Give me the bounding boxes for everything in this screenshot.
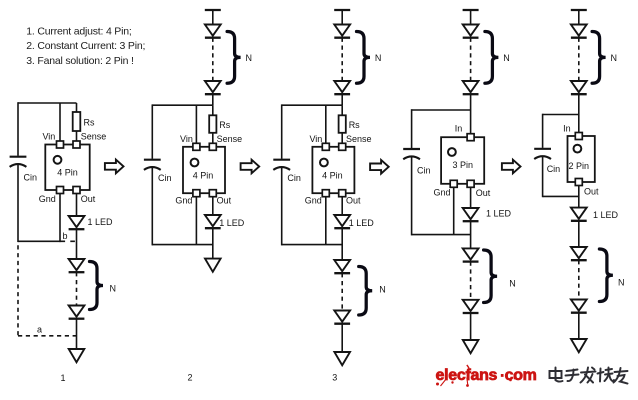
label Gnd (circuit 3) bbox=[305, 196, 322, 206]
svg-text:Gnd: Gnd bbox=[175, 196, 192, 206]
wire Out lead (circuit 3) bbox=[341, 197, 343, 215]
svg-text:Sense: Sense bbox=[81, 132, 107, 142]
wire top rail (circuit 1) bbox=[18, 102, 77, 104]
wire left rail (circuit 1) bbox=[17, 102, 19, 156]
wire left rail upper (circuit 4) bbox=[411, 109, 413, 148]
wire top chain lead (circuit 2) bbox=[212, 10, 214, 25]
label N lower (circuit 3) bbox=[379, 285, 386, 295]
op-amp U5 2-Pin regulator body bbox=[568, 136, 595, 182]
diode chain top D1 (circuit 2) bbox=[205, 25, 221, 38]
wire top chain bar (circuit 5) bbox=[571, 9, 587, 11]
ground (circuit 2) bbox=[205, 259, 221, 272]
logo Chinese char 烧 bbox=[598, 368, 615, 382]
op-amp U4 3-Pin regulator body bbox=[441, 137, 484, 184]
svg-text:Out: Out bbox=[217, 196, 232, 206]
pin-1 dot (circuit 2) bbox=[191, 159, 199, 167]
wire top chain bar (circuit 3) bbox=[334, 9, 350, 11]
brace N top (circuit 2) bbox=[227, 32, 241, 84]
label 4 Pin (circuit 2) bbox=[193, 171, 214, 181]
svg-text:Sense: Sense bbox=[346, 134, 372, 144]
wire Vin stub (circuit 3) bbox=[325, 105, 327, 144]
resistor Rs R1 bbox=[73, 112, 81, 131]
label 1 LED (circuit 3) bbox=[349, 218, 375, 228]
label Gnd (circuit 4) bbox=[433, 188, 450, 198]
wire left rail lower (circuit 4) bbox=[411, 157, 413, 236]
logo elecfans.com text bbox=[436, 367, 537, 384]
svg-text:N: N bbox=[503, 53, 510, 63]
label In (circuit 5) bbox=[563, 123, 571, 133]
wire chain to ground (circuit 4) bbox=[470, 313, 472, 340]
label N top (circuit 4) bbox=[503, 53, 510, 63]
svg-text:Cin: Cin bbox=[24, 173, 38, 183]
brace N lower (circuit 3) bbox=[359, 267, 373, 316]
pin Out (circuit 5) bbox=[575, 179, 582, 186]
label Cin (circuit 3) bbox=[287, 173, 301, 183]
label Rs (circuit 1) bbox=[84, 118, 95, 128]
label Vin (circuit 3) bbox=[309, 134, 322, 144]
pin Out (circuit 3) bbox=[339, 190, 346, 197]
pin-1 dot (circuit 5) bbox=[574, 145, 582, 153]
brace N lower (circuit 5) bbox=[599, 249, 613, 302]
wire dashed top chain (circuit 5) bbox=[578, 38, 580, 81]
label 4 Pin (circuit 3) bbox=[322, 171, 343, 181]
svg-text:Gnd: Gnd bbox=[305, 196, 322, 206]
ground (circuit 5) bbox=[571, 339, 587, 352]
label Cin (circuit 5) bbox=[547, 164, 561, 174]
wire Out lead (circuit 4) bbox=[470, 187, 472, 208]
logo Chinese char 子 bbox=[566, 370, 579, 382]
diode D2 (circuit 1 chain) bbox=[69, 259, 85, 272]
brace N (circuit 1) bbox=[90, 262, 104, 310]
label Gnd (circuit 1) bbox=[39, 194, 56, 204]
pin Gnd (circuit 2) bbox=[193, 190, 200, 197]
title line 2 bbox=[26, 40, 145, 52]
wire bottom rail (circuit 4) bbox=[412, 234, 471, 236]
label N lower (circuit 5) bbox=[618, 278, 625, 288]
svg-text:Cin: Cin bbox=[158, 173, 172, 183]
wire Gnd lead (circuit 2) bbox=[195, 197, 197, 245]
pin Sense (circuit 2) bbox=[209, 143, 216, 150]
arrow 4 bbox=[502, 160, 521, 174]
svg-text:com: com bbox=[505, 367, 537, 384]
svg-text:Sense: Sense bbox=[217, 134, 243, 144]
diode chain top D2 (circuit 3) bbox=[334, 81, 350, 94]
brace N top (circuit 5) bbox=[592, 32, 606, 84]
svg-text:b: b bbox=[63, 231, 68, 241]
svg-text:Out: Out bbox=[346, 196, 361, 206]
wire node b dashed link (circuit 1) bbox=[61, 240, 77, 242]
label 2 (circuit number) bbox=[187, 373, 192, 383]
capacitor Cin (circuit 5) bbox=[534, 149, 551, 159]
resistor Rs (circuit 3) bbox=[339, 115, 346, 133]
svg-text:1 LED: 1 LED bbox=[593, 210, 619, 220]
svg-text:3 Pin: 3 Pin bbox=[452, 160, 473, 170]
diode chain top D2 (circuit 4) bbox=[463, 81, 479, 94]
label Out (circuit 3) bbox=[346, 196, 361, 206]
wire LED to ground (circuit 2) bbox=[212, 228, 214, 258]
svg-text:Cin: Cin bbox=[417, 166, 431, 176]
label Cin (circuit 1) bbox=[24, 173, 38, 183]
diode chain lower D2 (circuit 5) bbox=[571, 247, 587, 260]
arrow 2 bbox=[241, 160, 260, 174]
svg-text:1 LED: 1 LED bbox=[349, 218, 375, 228]
wire chain to ground (circuit 3) bbox=[341, 324, 343, 352]
svg-text:N: N bbox=[110, 284, 117, 294]
wire dashed top chain (circuit 3) bbox=[341, 38, 343, 81]
label N top (circuit 5) bbox=[611, 53, 618, 63]
label Out (circuit 5) bbox=[584, 187, 599, 197]
wire top rail (circuit 2) bbox=[152, 104, 213, 106]
svg-text:Vin: Vin bbox=[180, 134, 193, 144]
wire dashed left drop (circuit 1) bbox=[17, 245, 19, 335]
svg-text:Vin: Vin bbox=[42, 132, 55, 142]
wire Out lead (circuit 2) bbox=[212, 197, 214, 215]
wire top rail (circuit 4) bbox=[412, 109, 471, 111]
label Out (circuit 2) bbox=[217, 196, 232, 206]
wire Gnd lead (circuit 3) bbox=[325, 197, 327, 245]
wire top chain lead (circuit 5) bbox=[578, 10, 580, 25]
wire top rail (circuit 5) bbox=[543, 114, 579, 116]
diode chain top D1 (circuit 5) bbox=[571, 25, 587, 38]
pin Sense (U1) bbox=[73, 141, 80, 148]
wire bottom rail (circuit 3) bbox=[282, 244, 343, 246]
ground (circuit 4) bbox=[463, 340, 479, 353]
label Gnd (circuit 2) bbox=[175, 196, 192, 206]
wire dashed node a link (circuit 1) bbox=[18, 335, 77, 337]
svg-text:Out: Out bbox=[81, 194, 96, 204]
wire Rs bottom lead (circuit 1) bbox=[76, 131, 78, 142]
resistor Rs (circuit 2) bbox=[209, 115, 216, 133]
wire chain to ground (circuit 1) bbox=[76, 319, 78, 349]
label Cin (circuit 4) bbox=[417, 166, 431, 176]
diode chain top D2 (circuit 5) bbox=[571, 81, 587, 94]
wire top chain bar (circuit 2) bbox=[205, 9, 221, 11]
svg-text:Rs: Rs bbox=[219, 120, 230, 130]
label 2 Pin (circuit 5) bbox=[569, 161, 590, 171]
pin Out (circuit 4) bbox=[467, 180, 474, 187]
label Vin (circuit 1) bbox=[42, 132, 55, 142]
wire dashed chain (circuit 1) bbox=[76, 272, 78, 305]
diode chain lower D3 (circuit 3) bbox=[334, 311, 350, 324]
label 1 LED (circuit 5) bbox=[593, 210, 619, 220]
diode chain lower D2 (circuit 3) bbox=[334, 260, 350, 273]
wire dashed lower chain (circuit 3) bbox=[341, 273, 343, 310]
title line 3 bbox=[26, 55, 133, 67]
svg-text:1 LED: 1 LED bbox=[486, 209, 512, 219]
wire top chain bar (circuit 4) bbox=[463, 9, 479, 11]
svg-text:Rs: Rs bbox=[349, 120, 360, 130]
pin Vin (U1) bbox=[57, 141, 64, 148]
svg-text:Gnd: Gnd bbox=[433, 188, 450, 198]
wire left rail lower (circuit 2) bbox=[151, 167, 153, 245]
wire dashed lower chain (circuit 5) bbox=[578, 260, 580, 299]
diode chain lower D3 (circuit 5) bbox=[571, 300, 587, 313]
svg-text:3: 3 bbox=[332, 373, 337, 383]
diode D3 (circuit 1 chain) bbox=[69, 306, 85, 319]
label Out (circuit 4) bbox=[476, 188, 491, 198]
svg-text:N: N bbox=[509, 279, 516, 289]
pin Out (U1) bbox=[73, 187, 80, 194]
svg-text:a: a bbox=[37, 325, 42, 335]
pin Vin (circuit 3) bbox=[322, 143, 329, 150]
ground (circuit 3) bbox=[334, 352, 350, 365]
wire top chain to In pin (circuit 5) bbox=[578, 94, 580, 132]
svg-text:Vin: Vin bbox=[309, 134, 322, 144]
wire Out lead (circuit 1) bbox=[76, 194, 78, 217]
logo Chinese char 友 bbox=[614, 368, 628, 384]
label 3 (circuit number) bbox=[332, 373, 337, 383]
capacitor Cin (circuit 2) bbox=[144, 160, 161, 170]
op-amp U2 4-Pin regulator body bbox=[183, 147, 225, 193]
brace N lower (circuit 4) bbox=[484, 250, 498, 303]
label 1 LED (circuit 4) bbox=[486, 209, 512, 219]
wire Gnd lead (circuit 4) bbox=[453, 187, 455, 234]
svg-text:Out: Out bbox=[584, 187, 599, 197]
brace N top (circuit 4) bbox=[485, 32, 499, 84]
pin-1 dot (circuit 4) bbox=[448, 148, 456, 156]
wire LED to junction (circuit 4) bbox=[470, 221, 472, 248]
svg-text:1: 1 bbox=[60, 373, 65, 383]
diode 1 LED (circuit 4) bbox=[463, 208, 479, 221]
svg-text:In: In bbox=[455, 124, 463, 134]
wire dashed lower chain (circuit 4) bbox=[470, 262, 472, 300]
diode chain top D2 (circuit 2) bbox=[205, 81, 221, 94]
wire Rs top lead (circuit 2) bbox=[212, 105, 214, 115]
diode 1 LED (circuit 3) bbox=[334, 215, 350, 228]
wire dashed top chain (circuit 4) bbox=[470, 38, 472, 81]
diode D1 1 LED (circuit 1) bbox=[69, 216, 85, 229]
wire LED to next (circuit 5) bbox=[578, 221, 580, 247]
diode 1 LED (circuit 5) bbox=[571, 208, 587, 221]
svg-text:2. Constant Current: 3 Pin;: 2. Constant Current: 3 Pin; bbox=[26, 40, 145, 52]
diode chain top D1 (circuit 4) bbox=[463, 25, 479, 38]
wire top chain lead (circuit 3) bbox=[341, 10, 343, 25]
label N top (circuit 3) bbox=[375, 53, 382, 63]
pin In (circuit 4) bbox=[467, 134, 474, 141]
wire bottom rail (circuit 5) bbox=[543, 195, 579, 197]
label N top (circuit 2) bbox=[246, 53, 253, 63]
pin Gnd (circuit 3) bbox=[322, 190, 329, 197]
svg-text:2 Pin: 2 Pin bbox=[569, 161, 590, 171]
pin Vin (circuit 2) bbox=[193, 143, 200, 150]
label Cin (circuit 2) bbox=[158, 173, 172, 183]
wire Rs top lead (circuit 1) bbox=[76, 103, 78, 112]
pin Gnd (U1) bbox=[57, 187, 64, 194]
svg-text:N: N bbox=[246, 53, 253, 63]
svg-text:4 Pin: 4 Pin bbox=[322, 171, 343, 181]
logo Chinese char 电 bbox=[550, 368, 563, 382]
wire left rail upper (circuit 5) bbox=[542, 114, 544, 148]
wire Out lead (circuit 5) bbox=[578, 186, 580, 208]
op-amp U1 4-Pin regulator body bbox=[45, 145, 89, 191]
wire LED to junction (circuit 3) bbox=[341, 228, 343, 260]
node b label bbox=[63, 231, 68, 241]
wire top chain to In pin (circuit 4) bbox=[470, 94, 472, 134]
label Sense (circuit 1) bbox=[81, 132, 107, 142]
svg-text:N: N bbox=[611, 53, 618, 63]
wire Rs bottom lead (circuit 2) bbox=[212, 133, 214, 144]
label 4 Pin (U1) bbox=[57, 168, 78, 178]
wire Vin stub (circuit 2) bbox=[195, 105, 197, 144]
label 1 (circuit number) bbox=[60, 373, 65, 383]
wire top chain to rail (circuit 3) bbox=[341, 94, 343, 105]
label 3 Pin (circuit 4) bbox=[452, 160, 473, 170]
svg-text:N: N bbox=[379, 285, 386, 295]
wire left rail lower (circuit 3) bbox=[281, 167, 283, 245]
label N lower (circuit 4) bbox=[509, 279, 516, 289]
label N (circuit 1) bbox=[110, 284, 117, 294]
label Rs (circuit 3) bbox=[349, 120, 360, 130]
wire Rs bottom lead (circuit 3) bbox=[341, 133, 343, 144]
diode chain top D1 (circuit 3) bbox=[334, 25, 350, 38]
wire bottom rail (circuit 2) bbox=[152, 244, 213, 246]
wire dashed top chain (circuit 2) bbox=[212, 38, 214, 81]
arrow 3 bbox=[370, 160, 389, 174]
wire left rail upper (circuit 3) bbox=[281, 104, 283, 158]
wire cap C1 bottom lead bbox=[17, 164, 19, 242]
label 1 LED (circuit 2) bbox=[219, 218, 245, 228]
svg-text:1. Current adjust: 4 Pin;: 1. Current adjust: 4 Pin; bbox=[26, 26, 131, 38]
capacitor Cin C1 bbox=[10, 157, 27, 167]
diode chain lower D2 (circuit 4) bbox=[463, 248, 479, 261]
svg-text:N: N bbox=[618, 278, 625, 288]
svg-text:1 LED: 1 LED bbox=[219, 218, 245, 228]
arrow 1 bbox=[105, 160, 124, 174]
pin Sense (circuit 3) bbox=[339, 143, 346, 150]
wire top rail (circuit 3) bbox=[282, 104, 343, 106]
svg-text:Cin: Cin bbox=[547, 164, 561, 174]
diode chain lower D3 (circuit 4) bbox=[463, 300, 479, 313]
wire top chain lead (circuit 4) bbox=[470, 10, 472, 25]
wire Vin stub (circuit 1) bbox=[59, 103, 61, 142]
svg-text:4 Pin: 4 Pin bbox=[193, 171, 214, 181]
wire Rs top lead (circuit 3) bbox=[341, 105, 343, 115]
svg-text:Out: Out bbox=[476, 188, 491, 198]
wire chain to ground (circuit 5) bbox=[578, 313, 580, 339]
svg-text:2: 2 bbox=[187, 373, 192, 383]
svg-text:Gnd: Gnd bbox=[39, 194, 56, 204]
svg-text:4 Pin: 4 Pin bbox=[57, 168, 78, 178]
svg-text:3. Fanal solution: 2 Pin !: 3. Fanal solution: 2 Pin ! bbox=[26, 55, 133, 67]
wire bottom rail (circuit 1) bbox=[18, 240, 61, 242]
title line 1 bbox=[26, 26, 131, 38]
label Vin (circuit 2) bbox=[180, 134, 193, 144]
wire left rail lower (circuit 5) bbox=[542, 157, 544, 198]
diode 1 LED (circuit 2) bbox=[205, 215, 221, 228]
label 1 LED (circuit 1) bbox=[88, 217, 114, 227]
op-amp U3 4-Pin regulator body bbox=[312, 147, 354, 193]
wire Gnd lead (circuit 1) bbox=[59, 194, 61, 243]
svg-text:In: In bbox=[563, 123, 571, 133]
brace N top (circuit 3) bbox=[357, 32, 371, 84]
label In (circuit 4) bbox=[455, 124, 463, 134]
label Out (circuit 1) bbox=[81, 194, 96, 204]
pin Gnd (circuit 4) bbox=[450, 180, 457, 187]
node a label bbox=[37, 325, 42, 335]
pin-1 dot U1 bbox=[54, 156, 62, 164]
pin In (circuit 5) bbox=[575, 133, 582, 140]
svg-text:Cin: Cin bbox=[287, 173, 301, 183]
pin-1 dot (circuit 3) bbox=[320, 159, 328, 167]
capacitor Cin (circuit 4) bbox=[403, 149, 420, 159]
label Rs (circuit 2) bbox=[219, 120, 230, 130]
capacitor Cin (circuit 3) bbox=[273, 160, 290, 170]
wire LED chain (circuit 1) bbox=[76, 229, 78, 259]
logo Chinese char 发 bbox=[581, 368, 596, 383]
svg-text:Rs: Rs bbox=[84, 118, 95, 128]
wire top chain to rail (circuit 2) bbox=[212, 94, 214, 105]
label Sense (circuit 2) bbox=[217, 134, 243, 144]
logo ink droplets bbox=[436, 365, 515, 387]
ground (circuit 1) bbox=[69, 349, 85, 362]
pin Out (circuit 2) bbox=[209, 190, 216, 197]
wire left rail upper (circuit 2) bbox=[151, 104, 153, 158]
svg-text:N: N bbox=[375, 53, 382, 63]
svg-text:1 LED: 1 LED bbox=[88, 217, 114, 227]
label Sense (circuit 3) bbox=[346, 134, 372, 144]
